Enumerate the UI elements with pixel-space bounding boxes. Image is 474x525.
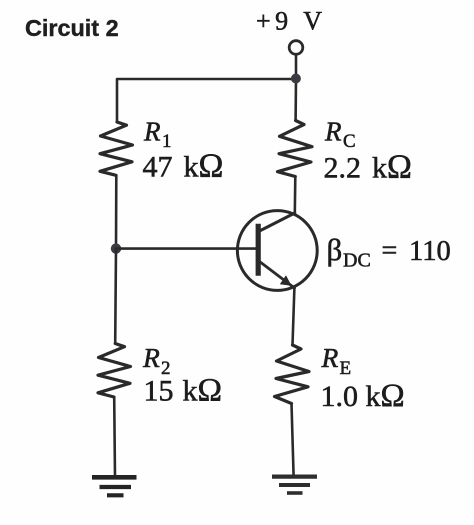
wire: collector rail from junction to RC xyxy=(294,79,297,121)
resistor RE xyxy=(275,345,310,404)
svg-text:Circuit 2: Circuit 2 xyxy=(25,15,119,41)
svg-text:C: C xyxy=(343,131,356,152)
wire: supply stub below terminal xyxy=(295,55,298,80)
svg-text:1.0 kΩ: 1.0 kΩ xyxy=(321,378,405,414)
transistor Q1 emitter lead xyxy=(260,262,295,289)
wire: left rail R2 to ground xyxy=(113,397,116,477)
svg-text:=: = xyxy=(382,236,398,267)
svg-text:+9 V: +9 V xyxy=(256,7,326,36)
terminal: +9V open circle xyxy=(289,41,303,55)
ground (right) xyxy=(272,477,317,493)
svg-text:DC: DC xyxy=(343,250,371,272)
transistor Q1 circle xyxy=(237,211,317,291)
node: base junction dot xyxy=(111,243,121,253)
svg-text:110: 110 xyxy=(409,236,451,267)
resistor R2 xyxy=(98,344,131,398)
wire: left rail R1 to base junction xyxy=(115,175,118,248)
svg-text:2.2 kΩ: 2.2 kΩ xyxy=(324,149,412,186)
resistor RC xyxy=(278,121,313,177)
transistor Q1 emitter arrowhead xyxy=(280,275,292,286)
node: supply junction dot xyxy=(291,74,301,84)
svg-text:R: R xyxy=(142,342,160,373)
svg-text:1: 1 xyxy=(162,131,172,152)
ground (left) xyxy=(92,477,137,495)
wire: emitter to RE xyxy=(293,288,295,345)
svg-text:R: R xyxy=(324,117,342,147)
svg-text:β: β xyxy=(327,232,343,267)
wire: base wire to transistor xyxy=(116,247,258,250)
wire: top horizontal rail xyxy=(117,79,296,122)
svg-text:E: E xyxy=(340,358,352,379)
wire: left rail junction to R2 xyxy=(114,249,117,344)
svg-text:R: R xyxy=(321,342,339,373)
svg-text:R: R xyxy=(143,117,161,147)
transistor Q1 base bar xyxy=(256,224,261,276)
svg-text:15 kΩ: 15 kΩ xyxy=(144,372,223,408)
svg-text:47 kΩ: 47 kΩ xyxy=(143,148,224,185)
resistor R1 xyxy=(100,122,133,175)
wire: RE to ground xyxy=(292,404,294,477)
transistor Q1 collector lead xyxy=(260,213,295,231)
wire: RC bottom to transistor collector xyxy=(293,177,296,214)
